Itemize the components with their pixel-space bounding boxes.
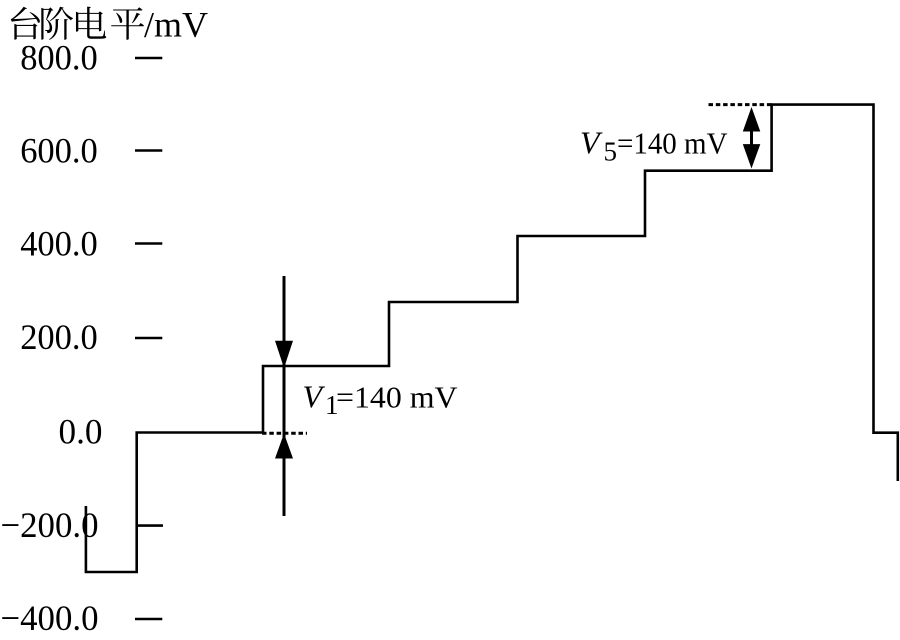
dashed level line at 0 mV — [262, 432, 307, 435]
axis title CJK: 电 — [76, 7, 106, 39]
svg-text:=140 mV: =140 mV — [336, 380, 458, 415]
svg-text:−400.0: −400.0 — [1, 598, 99, 638]
V1 up arrowhead — [275, 434, 293, 459]
y-axis tick -200 — [137, 524, 164, 527]
staircase waveform — [86, 105, 898, 572]
svg-text:400.0: 400.0 — [20, 224, 98, 264]
svg-text:600.0: 600.0 — [20, 130, 98, 170]
axis title CJK: 台 — [11, 7, 40, 40]
svg-text:/mV: /mV — [144, 5, 208, 45]
V5 down arrowhead — [743, 144, 761, 168]
svg-text:0.0: 0.0 — [59, 412, 103, 452]
y-axis tick 200 — [135, 337, 162, 340]
svg-text:200.0: 200.0 — [20, 317, 98, 357]
axis title CJK: 平 — [111, 7, 144, 40]
V1 down arrowhead — [275, 341, 293, 368]
svg-text:5: 5 — [604, 136, 618, 166]
y-axis tick 800 — [135, 57, 162, 60]
y-axis tick 600 — [135, 149, 162, 152]
axis title CJK: 阶 — [41, 7, 73, 40]
svg-text:800.0: 800.0 — [20, 38, 98, 78]
V1 arrow shaft (continuous) — [283, 276, 286, 516]
svg-text:−200.0: −200.0 — [1, 505, 99, 545]
dashed level line at 700 mV — [709, 103, 772, 106]
V5 double arrow shaft — [750, 128, 753, 148]
y-axis tick -400 — [135, 618, 162, 621]
svg-text:=140 mV: =140 mV — [617, 125, 728, 160]
y-axis tick 400 — [135, 242, 162, 245]
V5 up arrowhead — [743, 107, 761, 132]
